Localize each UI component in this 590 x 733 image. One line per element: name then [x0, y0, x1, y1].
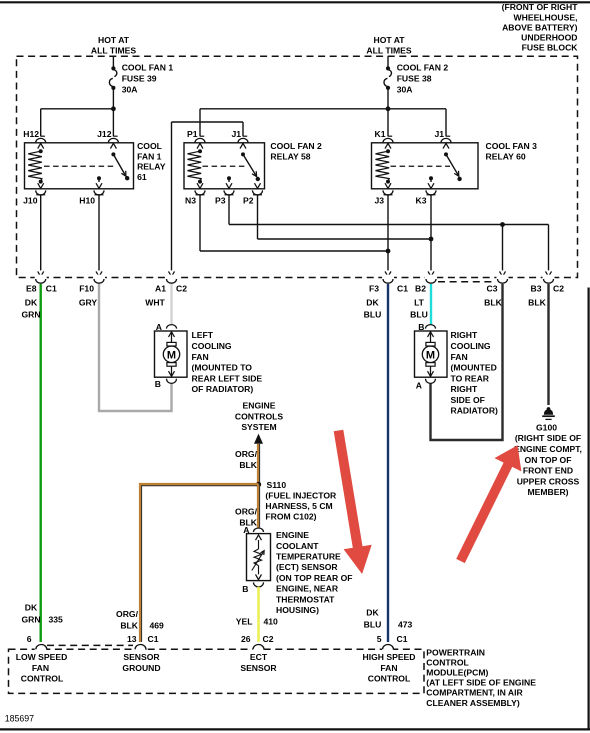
wire A1 to J1 of relay 2	[242, 122, 244, 136]
svg-text:J3: J3	[374, 195, 384, 205]
svg-text:C1: C1	[46, 283, 57, 293]
connector E8/C1 at fuse block edge	[36, 279, 46, 283]
ground G100	[547, 407, 551, 411]
svg-text:J10: J10	[23, 195, 38, 205]
svg-text:CONTROLS: CONTROLS	[235, 411, 283, 421]
svg-text:BLU: BLU	[410, 310, 428, 320]
wire DK BLU circuit 473	[387, 284, 389, 642]
wire BLK from B3 to G100	[547, 284, 549, 405]
relay 3 switch	[444, 152, 448, 156]
svg-text:RIGHT: RIGHT	[451, 384, 478, 394]
svg-text:OF RADIATOR): OF RADIATOR)	[192, 384, 254, 394]
svg-text:(RIGHT SIDE OF: (RIGHT SIDE OF	[515, 433, 581, 443]
svg-text:ENGINE: ENGINE	[276, 530, 309, 540]
svg-text:C2: C2	[263, 634, 274, 644]
fuse F38 COOL FAN 2 FUSE 38 30A	[386, 66, 390, 70]
svg-text:COOLING: COOLING	[451, 341, 491, 351]
wire fuse 1 to junction	[112, 89, 114, 109]
relay 1 switch	[111, 152, 115, 156]
svg-text:410: 410	[264, 617, 279, 627]
svg-text:FAN: FAN	[451, 352, 468, 362]
relay 3 pin K3 stub	[429, 176, 433, 180]
svg-text:J1: J1	[434, 129, 444, 139]
wire YEL circuit 410	[257, 587, 260, 642]
wire junction to H12	[41, 108, 114, 110]
svg-text:BLK: BLK	[528, 298, 546, 308]
wire junction to K1	[387, 109, 389, 137]
svg-text:ENGINE COMPT,: ENGINE COMPT,	[514, 444, 582, 454]
svg-text:(ON TOP REAR OF: (ON TOP REAR OF	[276, 573, 353, 583]
wire P2 to K3/B2 column	[257, 195, 259, 239]
wire N3 to J3/F3 column	[199, 195, 201, 251]
svg-text:COMPARTMENT, IN AIR: COMPARTMENT, IN AIR	[426, 688, 523, 698]
svg-text:TO REAR: TO REAR	[451, 373, 490, 383]
svg-text:473: 473	[398, 619, 413, 629]
svg-text:FUSE BLOCK: FUSE BLOCK	[522, 43, 579, 53]
wire from hot feed to fuse 2	[387, 56, 389, 67]
svg-text:COOLANT: COOLANT	[276, 541, 319, 551]
svg-text:SENSOR: SENSOR	[123, 652, 160, 662]
wire from hot feed to fuse 1	[112, 56, 114, 67]
wire ORG/BLK branch to sensor ground	[140, 484, 258, 642]
svg-text:A1: A1	[155, 283, 166, 293]
relay 3 internal dashed link	[391, 165, 451, 167]
svg-text:ALL TIMES: ALL TIMES	[366, 46, 411, 56]
svg-text:SENSOR: SENSOR	[240, 663, 277, 673]
svg-text:HIGH SPEED: HIGH SPEED	[362, 652, 415, 662]
svg-text:P3: P3	[215, 195, 226, 205]
svg-text:HARNESS, 5 CM: HARNESS, 5 CM	[265, 501, 332, 511]
wire J3 down to F3	[387, 195, 389, 271]
ECT sensor (thermistor)	[247, 534, 271, 581]
wire	[446, 135, 450, 137]
wire down to B3	[548, 225, 550, 271]
svg-text:BLK: BLK	[120, 621, 138, 631]
wire BLK from C3 to right fan A	[431, 284, 503, 440]
red callout arrow pointing to G100	[456, 445, 521, 563]
relay 2 switch	[241, 152, 245, 156]
svg-text:RADIATOR): RADIATOR)	[451, 406, 499, 416]
svg-text:REAR LEFT SIDE: REAR LEFT SIDE	[192, 373, 263, 383]
svg-text:ORG/: ORG/	[235, 507, 258, 517]
wire	[200, 135, 204, 137]
svg-text:B: B	[242, 584, 248, 594]
relay 2 switch to P2	[255, 183, 261, 188]
wire	[388, 135, 392, 137]
svg-text:A: A	[416, 380, 422, 390]
relay 3 coil	[386, 149, 390, 153]
svg-text:UPPER CROSS: UPPER CROSS	[517, 476, 580, 486]
svg-text:DK: DK	[25, 603, 38, 613]
wire K3 down to B2	[430, 195, 432, 271]
svg-text:CONTROL: CONTROL	[21, 674, 64, 684]
svg-text:COOL FAN 3: COOL FAN 3	[486, 141, 538, 151]
wire WHT to left fan A	[170, 284, 172, 325]
svg-text:6: 6	[27, 634, 32, 644]
svg-text:LEFT: LEFT	[192, 330, 214, 340]
wire DK GRN circuit 335	[40, 284, 42, 642]
svg-text:COOL: COOL	[137, 141, 162, 151]
svg-text:HOUSING): HOUSING)	[276, 605, 319, 615]
svg-text:(FRONT OF RIGHT: (FRONT OF RIGHT	[502, 2, 579, 12]
connector F3/C1 at fuse block edge	[383, 279, 393, 283]
svg-text:F10: F10	[79, 283, 94, 293]
page top border	[0, 1, 590, 3]
red callout arrow pointing to ECT sensor area	[334, 430, 372, 574]
relay 2 coil	[198, 149, 202, 153]
white gaps on dashed edge at connectors	[35, 275, 47, 280]
svg-text:M: M	[167, 349, 176, 361]
connector F10 at fuse block edge	[94, 279, 104, 283]
svg-text:(ECT) SENSOR: (ECT) SENSOR	[276, 562, 338, 572]
svg-text:M: M	[426, 349, 435, 361]
svg-text:GRN: GRN	[21, 615, 40, 625]
node junction P2/K3	[429, 237, 434, 242]
svg-text:BLU: BLU	[364, 310, 382, 320]
svg-text:LOW SPEED: LOW SPEED	[16, 652, 68, 662]
svg-text:SYSTEM: SYSTEM	[241, 422, 276, 432]
svg-text:(AT LEFT SIDE OF ENGINE: (AT LEFT SIDE OF ENGINE	[426, 678, 536, 688]
svg-text:(MOUNTED: (MOUNTED	[451, 363, 497, 373]
svg-text:THERMOSTAT: THERMOSTAT	[276, 594, 335, 604]
svg-text:C1: C1	[397, 283, 408, 293]
svg-text:WHT: WHT	[145, 298, 165, 308]
svg-text:COOL FAN 2: COOL FAN 2	[397, 63, 449, 73]
svg-text:C2: C2	[553, 283, 564, 293]
svg-text:UNDERHOOD: UNDERHOOD	[521, 33, 577, 43]
svg-text:COOL FAN 2: COOL FAN 2	[270, 141, 322, 151]
svg-text:SIDE OF: SIDE OF	[451, 395, 485, 405]
relay 1 internal dashed link	[44, 165, 116, 167]
svg-text:POWERTRAIN: POWERTRAIN	[426, 647, 485, 657]
svg-text:BLK: BLK	[239, 460, 257, 470]
svg-text:B2: B2	[415, 283, 426, 293]
svg-text:FRONT END: FRONT END	[523, 466, 573, 476]
svg-text:B3: B3	[531, 283, 542, 293]
svg-text:GRN: GRN	[21, 310, 40, 320]
svg-text:FUSE 38: FUSE 38	[397, 74, 432, 84]
svg-text:P2: P2	[243, 195, 254, 205]
wire junction to J12	[112, 109, 114, 137]
svg-text:C1: C1	[148, 634, 159, 644]
wire P3 to C3 and B3	[228, 195, 230, 225]
svg-text:FROM C102): FROM C102)	[265, 511, 316, 521]
svg-text:ENGINE: ENGINE	[243, 401, 276, 411]
motor M2 right cooling fan	[415, 331, 448, 377]
svg-text:LT: LT	[414, 298, 425, 308]
wire	[113, 135, 117, 137]
svg-text:GROUND: GROUND	[122, 663, 160, 673]
svg-text:N3: N3	[185, 195, 196, 205]
relay COOL FAN 3 RELAY 60 box	[372, 143, 479, 189]
svg-text:RIGHT: RIGHT	[451, 330, 478, 340]
svg-text:FAN: FAN	[32, 663, 49, 673]
connector C3 at fuse block edge	[498, 279, 508, 283]
svg-text:C3: C3	[487, 283, 498, 293]
svg-text:P1: P1	[187, 129, 198, 139]
svg-text:C1: C1	[397, 634, 408, 644]
fuse F39 COOL FAN 1 FUSE 39 30A	[111, 66, 115, 70]
svg-text:HOT AT: HOT AT	[98, 35, 130, 45]
svg-text:K3: K3	[416, 195, 427, 205]
wire fuse 2 to junction	[387, 89, 389, 109]
svg-text:26: 26	[241, 634, 251, 644]
svg-text:5: 5	[377, 634, 382, 644]
relay 1 pin H10 stub	[97, 176, 101, 180]
svg-text:G100: G100	[536, 422, 557, 432]
node junction below fuse 1	[111, 106, 116, 111]
svg-text:185697: 185697	[5, 714, 34, 724]
svg-text:ORG/: ORG/	[235, 449, 258, 459]
wire H10 to F10	[98, 195, 100, 271]
svg-text:K1: K1	[375, 129, 386, 139]
svg-text:BLU: BLU	[364, 619, 382, 629]
svg-text:H12: H12	[23, 129, 39, 139]
svg-text:ORG/: ORG/	[116, 609, 139, 619]
page right border	[587, 288, 589, 731]
extra dashed connector line between pins 6 and 13	[47, 644, 133, 646]
svg-text:RELAY: RELAY	[137, 162, 166, 172]
wire GRY to left fan B	[99, 284, 172, 411]
node junction at C3 column	[500, 222, 505, 227]
wire junction to J1 of relay 3	[388, 108, 446, 110]
relay COOL FAN 2 RELAY 58 box	[184, 143, 265, 189]
extra dashed connector line between B2 and C3	[438, 281, 496, 283]
svg-text:FUSE 39: FUSE 39	[122, 74, 157, 84]
svg-text:ON TOP OF: ON TOP OF	[525, 455, 572, 465]
node junction below fuse 2	[386, 106, 391, 111]
svg-text:(MOUNTED TO: (MOUNTED TO	[192, 363, 253, 373]
svg-text:C2: C2	[176, 283, 187, 293]
svg-text:ENGINE, NEAR: ENGINE, NEAR	[276, 584, 339, 594]
svg-text:MODULE(PCM): MODULE(PCM)	[426, 668, 488, 678]
wire	[243, 135, 247, 137]
svg-text:DK: DK	[366, 298, 379, 308]
svg-text:(FUEL INJECTOR: (FUEL INJECTOR	[265, 490, 337, 500]
relay 1 coil	[39, 149, 43, 153]
svg-text:MEMBER): MEMBER)	[527, 487, 568, 497]
svg-text:A: A	[156, 322, 162, 332]
connector B2 at fuse block edge	[426, 279, 436, 283]
svg-text:YEL: YEL	[236, 617, 253, 627]
svg-text:CONTROL: CONTROL	[368, 674, 411, 684]
relay 2 pin P3 stub	[227, 176, 231, 180]
svg-text:ALL TIMES: ALL TIMES	[91, 46, 136, 56]
svg-text:S110: S110	[267, 480, 287, 490]
svg-text:TEMPERATURE: TEMPERATURE	[276, 552, 341, 562]
powertrain control module dashed box	[9, 649, 425, 693]
svg-text:COOLING: COOLING	[192, 341, 232, 351]
svg-text:ABOVE BATTERY): ABOVE BATTERY)	[502, 22, 578, 32]
svg-text:13: 13	[127, 634, 137, 644]
svg-text:FAN: FAN	[380, 663, 397, 673]
svg-text:DK: DK	[366, 608, 379, 618]
connector A1/C2 at fuse block edge	[167, 279, 177, 283]
arrow to engine controls system	[254, 434, 263, 444]
svg-text:469: 469	[150, 621, 165, 631]
svg-text:HOT AT: HOT AT	[373, 35, 405, 45]
wire down to C3	[502, 225, 504, 271]
svg-text:CONTROL: CONTROL	[426, 657, 469, 667]
wire	[41, 135, 45, 137]
relay K? COOL FAN 1 RELAY 61 box	[25, 143, 134, 189]
svg-text:30A: 30A	[122, 85, 138, 95]
svg-text:61: 61	[137, 172, 147, 182]
svg-text:F3: F3	[369, 283, 379, 293]
svg-text:RELAY 58: RELAY 58	[270, 151, 310, 161]
wire junction to P1	[200, 108, 388, 110]
svg-text:FAN: FAN	[192, 352, 209, 362]
wire ORG/BLK from S110 to ECT sensor A	[257, 485, 260, 528]
connector B3/C2 at fuse block edge	[544, 279, 554, 283]
svg-text:COOL FAN 1: COOL FAN 1	[122, 63, 174, 73]
page bottom border	[0, 728, 590, 730]
underhood fuse block dashed box	[17, 56, 578, 277]
svg-text:E8: E8	[26, 283, 37, 293]
white gaps at PCM pins	[35, 647, 47, 653]
svg-text:FAN 1: FAN 1	[137, 151, 162, 161]
splice S110	[256, 482, 261, 487]
svg-text:J1: J1	[231, 129, 241, 139]
svg-text:30A: 30A	[397, 85, 413, 95]
motor M1 left cooling fan	[155, 331, 188, 377]
svg-text:335: 335	[49, 615, 64, 625]
svg-text:CLEANER ASSEMBLY): CLEANER ASSEMBLY)	[426, 698, 520, 708]
wire LT BLU to right fan B	[430, 284, 432, 325]
svg-text:BLK: BLK	[484, 298, 502, 308]
svg-text:RELAY 60: RELAY 60	[486, 151, 526, 161]
svg-text:H10: H10	[79, 195, 95, 205]
node junction N3/J3	[386, 249, 391, 254]
svg-text:ECT: ECT	[250, 652, 268, 662]
svg-text:B: B	[418, 322, 424, 332]
relay 2 internal dashed link	[203, 165, 248, 167]
svg-text:DK: DK	[25, 298, 38, 308]
svg-text:WHEELHOUSE,: WHEELHOUSE,	[514, 12, 578, 22]
wire J10 to E8	[40, 195, 42, 271]
svg-text:B: B	[155, 379, 161, 389]
wire ORG/BLK above S110	[257, 444, 260, 485]
svg-text:J12: J12	[97, 129, 112, 139]
svg-text:GRY: GRY	[79, 298, 98, 308]
